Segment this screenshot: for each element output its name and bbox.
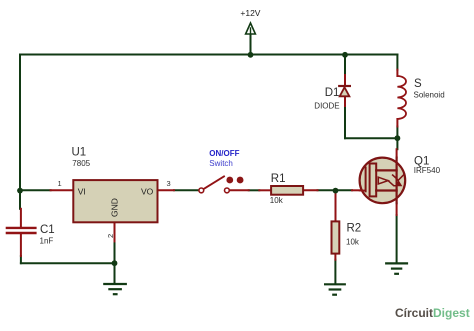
svg-text:1nF: 1nF: [40, 237, 54, 246]
svg-text:3: 3: [167, 179, 171, 188]
svg-text:GND: GND: [110, 198, 120, 217]
svg-text:IRF540: IRF540: [414, 166, 441, 175]
svg-text:Switch: Switch: [209, 159, 233, 168]
svg-text:2: 2: [106, 234, 115, 238]
svg-text:1: 1: [58, 179, 62, 188]
svg-text:R1: R1: [271, 173, 286, 185]
svg-text:S: S: [414, 78, 422, 90]
svg-text:10k: 10k: [270, 196, 284, 205]
svg-text:7805: 7805: [72, 159, 90, 168]
svg-text:DIODE: DIODE: [314, 101, 339, 110]
svg-text:+12V: +12V: [240, 8, 260, 18]
svg-text:VO: VO: [141, 187, 154, 197]
svg-text:10k: 10k: [346, 237, 360, 246]
svg-text:U1: U1: [72, 147, 87, 159]
svg-text:ON/OFF: ON/OFF: [209, 149, 239, 158]
svg-text:D1: D1: [325, 87, 340, 99]
svg-text:Solenoid: Solenoid: [414, 91, 445, 100]
svg-text:R2: R2: [347, 223, 362, 235]
svg-text:C1: C1: [40, 224, 55, 236]
svg-text:CírcuitDigest: CírcuitDigest: [395, 306, 470, 320]
svg-text:VI: VI: [78, 187, 86, 197]
